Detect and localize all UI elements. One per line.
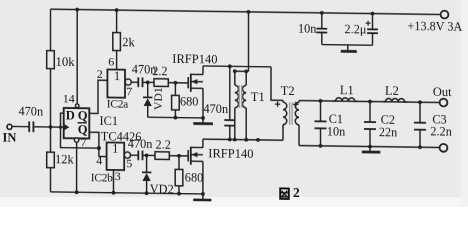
svg-text:2.2n: 2.2n (430, 125, 452, 139)
resistor R 2.2 upper (152, 64, 168, 87)
svg-text:2.2μ: 2.2μ (344, 22, 366, 36)
node VD1 junction (146, 80, 150, 84)
wire pin 3 ground drop (112, 170, 116, 195)
wire bottom ground rail (51, 192, 203, 194)
svg-text:Out: Out (433, 85, 452, 99)
svg-text:10k: 10k (56, 55, 76, 69)
inductor L2 (383, 84, 407, 103)
svg-text:T1: T1 (251, 90, 265, 104)
transformer T1 (235, 71, 265, 140)
wire supply feed to T1 (233, 10, 251, 74)
ground lower (193, 194, 211, 200)
svg-text:2.2: 2.2 (156, 138, 171, 152)
wire D feedback from Qbar (61, 113, 99, 148)
op-amp U IC2a driver (107, 69, 132, 111)
wire upper source ground bus (148, 116, 203, 119)
node C1 top (319, 99, 323, 103)
svg-text:6: 6 (108, 54, 114, 68)
svg-text:IC1: IC1 (100, 114, 119, 128)
op-amp U IC2b driver (91, 129, 142, 185)
node C2 top (368, 100, 372, 104)
svg-text:22n: 22n (379, 125, 397, 139)
node VD2 junction (145, 153, 149, 157)
resistor R 12k (47, 127, 75, 192)
resistor R 2k (108, 8, 135, 70)
capacitor C2 22n (364, 101, 397, 148)
transistor Q1 IRFP140 upper (172, 52, 217, 118)
wire Qbar output to IC2b input (89, 132, 106, 167)
capacitor 470n gate upper (132, 62, 157, 87)
svg-text:5: 5 (126, 156, 132, 170)
svg-text:2k: 2k (122, 35, 135, 49)
terminal Out upper (433, 85, 452, 107)
wire 10k to input node (50, 69, 52, 127)
wire filter bottom (299, 146, 440, 148)
diode VD2 (142, 155, 174, 196)
wire IN to coupling cap (12, 125, 29, 127)
node input junction (49, 125, 53, 129)
wire resistor to gate lower (169, 155, 188, 157)
terminal Out lower (440, 144, 448, 152)
svg-text:IC2b: IC2b (91, 172, 113, 184)
transformer T2 (275, 84, 299, 146)
svg-text:470n: 470n (19, 104, 44, 118)
svg-text:IN: IN (3, 131, 17, 145)
terminal IN (3, 124, 17, 144)
wire upper drain to T1 (203, 65, 271, 68)
capacitor C1 10n (315, 101, 346, 148)
capacitor 10n rail (298, 11, 327, 45)
wire cap to gate resistor (143, 81, 155, 83)
node 680 junction lower (177, 154, 181, 158)
svg-text:12k: 12k (55, 152, 74, 166)
wire resistor to gate (168, 82, 188, 84)
wire push-pull bottom bus (203, 137, 283, 142)
resistor R 680 upper (172, 83, 199, 118)
node C3 top (418, 100, 422, 104)
svg-text:2: 2 (293, 185, 300, 200)
svg-text:VD2: VD2 (150, 182, 174, 196)
capacitor 2.2u rail (344, 11, 377, 45)
svg-text:470n: 470n (204, 102, 229, 116)
diode VD1 (143, 82, 165, 117)
svg-text:4: 4 (96, 153, 102, 167)
wire IC2b out to cap (131, 154, 139, 156)
wire bias divider vertical (50, 9, 52, 51)
svg-text:IRFP140: IRFP140 (208, 147, 253, 162)
svg-text:Q: Q (78, 109, 88, 123)
inductor L1 (333, 83, 357, 101)
caption figure 2 (280, 185, 300, 200)
wire Q output to IC2a input (89, 80, 107, 113)
svg-text:IC2a: IC2a (107, 98, 128, 110)
svg-text:+13.8V 3A: +13.8V 3A (408, 19, 463, 34)
svg-text:1: 1 (114, 69, 120, 83)
capacitor C3 2.2n (414, 102, 452, 149)
wire pin 14 supply drop (63, 7, 79, 107)
wire pin 7 ground drop (74, 135, 86, 194)
resistor R 2.2 lower (155, 138, 171, 160)
wire cap to gate resistor lower (143, 154, 156, 156)
svg-text:IRFP140: IRFP140 (172, 52, 217, 67)
svg-text:2: 2 (97, 67, 103, 81)
ground decoupling (341, 45, 357, 52)
svg-text:D: D (66, 108, 75, 122)
resistor R 10k (47, 51, 76, 69)
transistor Q2 IRFP140 lower (188, 139, 253, 197)
wire filter top (299, 101, 440, 103)
svg-text:14: 14 (63, 91, 75, 105)
ground upper (193, 118, 213, 124)
capacitor 470n gate lower (128, 137, 153, 161)
svg-text:7: 7 (81, 135, 87, 149)
node 680 junction upper (174, 81, 178, 85)
svg-text:T2: T2 (281, 84, 295, 98)
terminal +13.8V (408, 10, 463, 34)
capacitor 470n input (19, 104, 44, 132)
svg-text:VD1: VD1 (151, 87, 165, 110)
wire top supply rail (51, 9, 442, 14)
svg-text:L1: L1 (340, 83, 354, 97)
wire cap to clock pin (33, 126, 63, 128)
svg-text:470n: 470n (128, 137, 153, 151)
op-amp U IC1 flip-flop box (64, 108, 118, 139)
resistor R 680 lower (175, 156, 203, 196)
svg-text:7: 7 (126, 84, 132, 98)
ground filter (362, 146, 381, 152)
svg-text:10n: 10n (327, 124, 345, 138)
svg-text:3: 3 (115, 169, 121, 183)
wire decoupling bottom (322, 44, 373, 47)
wire IC2a out to cap (131, 81, 138, 83)
svg-text:L2: L2 (385, 84, 399, 98)
svg-text:2.2: 2.2 (152, 64, 167, 78)
svg-text:10n: 10n (298, 22, 316, 36)
wire T1 to T2 link (271, 67, 283, 100)
svg-text:680: 680 (185, 171, 203, 185)
capacitor 470n snubber T1 (204, 66, 236, 140)
svg-text:680: 680 (180, 94, 198, 108)
